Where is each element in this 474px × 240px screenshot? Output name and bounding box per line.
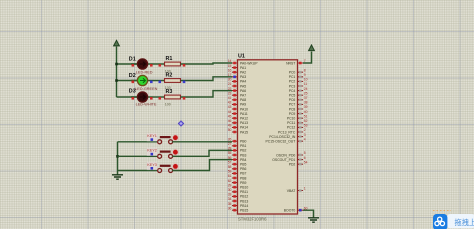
U1 right pin numbers	[304, 59, 308, 210]
svg-text:61: 61	[228, 174, 232, 178]
svg-text:PB15: PB15	[240, 209, 248, 213]
ground (BOOT0)	[308, 218, 319, 222]
svg-text:PB12: PB12	[240, 195, 248, 199]
svg-text:D3: D3	[129, 88, 136, 94]
svg-text:PB6: PB6	[240, 167, 247, 171]
svg-text:PA4: PA4	[240, 80, 246, 84]
svg-text:21: 21	[228, 82, 232, 86]
svg-text:PA11: PA11	[240, 112, 248, 116]
wire R2 left	[154, 80, 165, 82]
power symbol VCC (left)	[114, 40, 120, 46]
svg-text:PD2: PD2	[289, 163, 296, 167]
svg-text:PA5: PA5	[240, 84, 246, 88]
push button KEY1	[158, 134, 179, 143]
svg-text:30: 30	[228, 188, 232, 192]
U1 right pin state indicators	[299, 62, 302, 212]
svg-text:PA8: PA8	[240, 98, 246, 102]
svg-text:PC0: PC0	[289, 71, 296, 75]
LED D2	[131, 75, 154, 85]
U1 right pin labels	[266, 61, 296, 212]
svg-text:PB1: PB1	[240, 144, 247, 148]
svg-text:23: 23	[228, 91, 232, 95]
svg-text:PB9: PB9	[240, 181, 247, 185]
svg-text:43: 43	[228, 105, 232, 109]
svg-text:PA15: PA15	[240, 130, 248, 134]
pin state indicator KEY3 low side	[151, 167, 154, 170]
svg-text:PB0: PB0	[240, 140, 247, 144]
svg-text:VBAT: VBAT	[287, 189, 296, 193]
svg-text:PB14: PB14	[240, 204, 248, 208]
wire R3 to U1	[181, 91, 233, 97]
svg-text:KEY3: KEY3	[147, 163, 157, 167]
svg-text:PB8: PB8	[240, 176, 247, 180]
svg-text:PA12: PA12	[240, 117, 248, 121]
svg-text:PC5: PC5	[289, 94, 296, 98]
svg-text:6: 6	[304, 156, 306, 160]
svg-text:NRST: NRST	[286, 61, 295, 65]
U1 left pin labels	[240, 61, 258, 212]
svg-text:40: 40	[304, 110, 308, 114]
svg-text:D2: D2	[129, 73, 136, 79]
svg-text:15: 15	[228, 64, 232, 68]
svg-text:62: 62	[228, 179, 232, 183]
svg-text:9: 9	[304, 73, 306, 77]
svg-text:R3: R3	[166, 89, 173, 95]
svg-text:PB13: PB13	[240, 199, 248, 203]
svg-text:45: 45	[228, 114, 232, 118]
node marker (blue diamond)	[178, 121, 184, 127]
svg-text:10: 10	[304, 78, 308, 82]
wire KEY2 left	[118, 155, 158, 157]
node junction bus/D1	[115, 63, 118, 66]
resistor R3	[165, 95, 181, 99]
decorative orange dots above widget	[433, 210, 451, 212]
node junction bus/KEY2	[116, 155, 119, 158]
svg-text:PC2: PC2	[289, 80, 296, 84]
ground (keys)	[112, 171, 123, 180]
svg-text:PA14: PA14	[240, 126, 248, 130]
svg-text:52: 52	[304, 119, 308, 123]
svg-text:50: 50	[228, 128, 232, 132]
svg-text:PA0-WKUP: PA0-WKUP	[240, 61, 258, 65]
svg-text:PB3: PB3	[240, 153, 247, 157]
floating upload widget	[433, 214, 474, 230]
svg-text:PC6: PC6	[289, 98, 296, 102]
svg-text:53: 53	[304, 124, 308, 128]
svg-text:59: 59	[228, 170, 232, 174]
svg-text:39: 39	[304, 105, 308, 109]
svg-text:PB11: PB11	[240, 190, 248, 194]
svg-text:41: 41	[228, 96, 232, 100]
wire D3 anode row	[117, 96, 138, 98]
U1 left pin state indicators	[233, 62, 236, 212]
svg-text:46: 46	[228, 119, 232, 123]
wire R2 to U1	[181, 77, 233, 81]
wire keys ground bus	[117, 142, 119, 171]
svg-text:11: 11	[304, 82, 308, 86]
wire KEY2 to U1	[172, 150, 232, 156]
wire KEY3 left	[118, 170, 158, 172]
svg-text:LED-WHITE: LED-WHITE	[136, 102, 157, 106]
wire R1 left	[154, 63, 165, 65]
svg-text:1: 1	[304, 187, 306, 191]
svg-text:29: 29	[228, 183, 232, 187]
node junction bus/D2	[115, 79, 118, 82]
svg-text:PC8: PC8	[289, 107, 296, 111]
svg-text:42: 42	[228, 101, 232, 105]
svg-text:STM32F103R6: STM32F103R6	[238, 216, 267, 221]
LED D1	[131, 59, 154, 69]
svg-text:PC10: PC10	[287, 117, 296, 121]
svg-text:14: 14	[228, 59, 232, 63]
wire NRST to VCC	[303, 52, 312, 64]
svg-text:22: 22	[228, 87, 232, 91]
svg-text:PA7: PA7	[240, 94, 246, 98]
svg-text:PA13: PA13	[240, 121, 248, 125]
wire D1 anode row	[117, 63, 138, 65]
LED D3	[131, 92, 154, 102]
svg-text:PA3: PA3	[240, 75, 246, 79]
wire KEY3 to U1	[172, 160, 232, 171]
wire R1 to U1	[181, 63, 233, 64]
svg-text:54: 54	[304, 160, 308, 164]
svg-text:35: 35	[228, 202, 232, 206]
svg-text:57: 57	[228, 160, 232, 164]
svg-text:38: 38	[304, 101, 308, 105]
svg-text:PC3: PC3	[289, 84, 296, 88]
svg-text:LED-RED: LED-RED	[136, 71, 153, 75]
wire BOOT0 to ground	[303, 210, 314, 217]
svg-text:2: 2	[304, 128, 306, 132]
svg-text:55: 55	[228, 151, 232, 155]
svg-text:33: 33	[228, 193, 232, 197]
svg-text:20: 20	[228, 78, 232, 82]
chip U1 body	[238, 60, 298, 214]
svg-text:17: 17	[228, 73, 232, 77]
svg-text:PB10: PB10	[240, 186, 248, 190]
svg-text:PB2: PB2	[240, 149, 247, 153]
svg-text:PB7: PB7	[240, 172, 247, 176]
label KEY3	[147, 162, 158, 170]
label KEY2	[147, 148, 158, 156]
svg-text:36: 36	[228, 206, 232, 210]
svg-text:100: 100	[165, 102, 171, 106]
svg-text:PA1: PA1	[240, 66, 246, 70]
svg-text:PC13_RTC: PC13_RTC	[278, 130, 296, 134]
svg-text:58: 58	[228, 165, 232, 169]
svg-text:56: 56	[228, 156, 232, 160]
svg-text:44: 44	[228, 110, 232, 114]
svg-text:LED-GREEN: LED-GREEN	[135, 87, 157, 91]
svg-text:PC9: PC9	[289, 112, 296, 116]
svg-text:PC1: PC1	[289, 75, 296, 79]
wire D2 anode row	[117, 80, 138, 82]
wire R3 left	[154, 96, 165, 98]
svg-text:KEY1: KEY1	[147, 134, 157, 138]
svg-text:4: 4	[304, 137, 306, 141]
svg-text:BOOT0: BOOT0	[284, 209, 296, 213]
svg-text:37: 37	[304, 96, 308, 100]
svg-text:8: 8	[304, 68, 306, 72]
pin state indicator KEY2 low side	[151, 153, 154, 156]
pin state indicators row D3/R3	[132, 97, 186, 100]
svg-text:PA9: PA9	[240, 103, 246, 107]
svg-text:PB5: PB5	[240, 163, 247, 167]
push button KEY2	[158, 149, 179, 158]
svg-text:51: 51	[304, 114, 308, 118]
push button KEY3	[158, 163, 179, 172]
wire VCC bus vertical	[116, 47, 118, 98]
svg-text:OSCIN_PD0: OSCIN_PD0	[276, 153, 295, 157]
U1 left pin numbers	[228, 59, 232, 210]
wire KEY1 to U1	[172, 141, 232, 143]
svg-text:34: 34	[228, 197, 232, 201]
svg-text:25: 25	[304, 91, 308, 95]
svg-text:PC15-OSC32_OUT: PC15-OSC32_OUT	[266, 140, 296, 144]
resistor R2	[165, 79, 181, 83]
pin state indicators row D1/R1	[132, 64, 186, 67]
svg-text:PB4: PB4	[240, 158, 247, 162]
svg-text:U1: U1	[238, 54, 245, 60]
svg-text:拖拽上传: 拖拽上传	[454, 218, 474, 227]
svg-text:27: 27	[228, 142, 232, 146]
label KEY1	[147, 133, 158, 141]
svg-text:PA2: PA2	[240, 71, 246, 75]
U1 right pin stubs	[298, 63, 304, 210]
svg-text:PA10: PA10	[240, 107, 248, 111]
wire KEY1 left	[118, 141, 158, 143]
svg-text:PA6: PA6	[240, 89, 246, 93]
svg-text:28: 28	[228, 147, 232, 151]
U1 left pin stubs	[232, 63, 238, 210]
svg-text:26: 26	[228, 137, 232, 141]
svg-text:PC12: PC12	[287, 126, 296, 130]
svg-text:R2: R2	[166, 72, 173, 78]
power symbol VCC (right)	[309, 45, 315, 51]
svg-text:PC7: PC7	[289, 103, 296, 107]
svg-text:5: 5	[304, 151, 306, 155]
pin state indicator KEY1 low side	[151, 138, 154, 141]
svg-text:D1: D1	[129, 56, 136, 62]
svg-text:OSCOUT_PD1: OSCOUT_PD1	[272, 158, 295, 162]
svg-text:49: 49	[228, 124, 232, 128]
svg-text:PC11: PC11	[287, 121, 295, 125]
pin state indicators row D2/R2	[132, 81, 186, 84]
svg-text:16: 16	[228, 68, 232, 72]
svg-text:24: 24	[304, 87, 308, 91]
svg-text:R1: R1	[166, 56, 173, 62]
resistor R1	[165, 62, 181, 66]
svg-text:PC14-OSC32_IN: PC14-OSC32_IN	[269, 135, 296, 139]
svg-text:PC4: PC4	[289, 89, 296, 93]
svg-text:3: 3	[304, 133, 306, 137]
svg-text:KEY2: KEY2	[147, 149, 157, 153]
